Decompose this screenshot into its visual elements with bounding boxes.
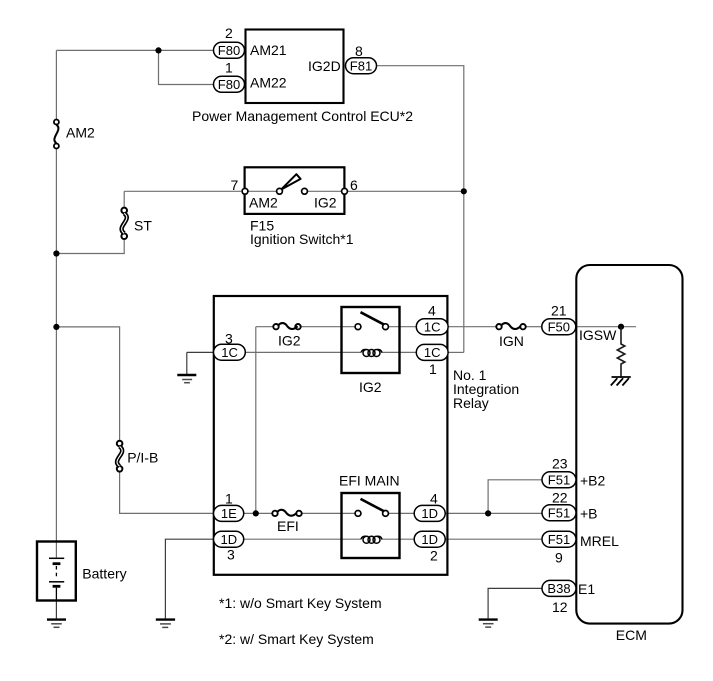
svg-text:+B: +B xyxy=(580,505,598,521)
svg-text:8: 8 xyxy=(355,43,363,59)
svg-text:1: 1 xyxy=(429,361,437,377)
svg-text:ECM: ECM xyxy=(616,627,647,643)
svg-text:23: 23 xyxy=(552,456,568,472)
svg-text:12: 12 xyxy=(552,599,568,615)
svg-text:6: 6 xyxy=(350,177,358,193)
svg-text:ST: ST xyxy=(134,218,152,234)
svg-text:IG2: IG2 xyxy=(359,379,382,395)
svg-text:4: 4 xyxy=(428,303,436,319)
svg-text:AM21: AM21 xyxy=(250,42,287,58)
svg-text:9: 9 xyxy=(555,549,563,565)
svg-text:F81: F81 xyxy=(350,58,372,73)
svg-text:1C: 1C xyxy=(424,320,441,335)
svg-text:IG2: IG2 xyxy=(314,194,337,210)
svg-text:7: 7 xyxy=(231,177,239,193)
svg-text:AM2: AM2 xyxy=(66,125,95,141)
svg-text:IG2: IG2 xyxy=(278,333,301,349)
svg-text:1: 1 xyxy=(225,490,233,506)
svg-text:1D: 1D xyxy=(421,532,438,547)
svg-text:IGSW: IGSW xyxy=(579,327,617,343)
svg-text:EFI: EFI xyxy=(277,518,299,534)
svg-text:*2: w/ Smart Key System: *2: w/ Smart Key System xyxy=(219,631,374,647)
svg-text:2: 2 xyxy=(225,25,233,41)
svg-text:EFI MAIN: EFI MAIN xyxy=(339,472,400,488)
svg-text:B38: B38 xyxy=(547,581,570,596)
svg-text:Ignition Switch*1: Ignition Switch*1 xyxy=(250,231,354,247)
svg-text:AM22: AM22 xyxy=(250,75,287,91)
svg-text:Relay: Relay xyxy=(453,395,489,411)
svg-text:1D: 1D xyxy=(421,506,438,521)
svg-text:1: 1 xyxy=(225,60,233,76)
svg-text:F80: F80 xyxy=(218,77,240,92)
svg-text:F51: F51 xyxy=(548,532,570,547)
svg-text:1E: 1E xyxy=(221,506,237,521)
svg-text:F80: F80 xyxy=(218,43,240,58)
svg-text:21: 21 xyxy=(551,302,567,318)
svg-text:3: 3 xyxy=(225,330,233,346)
svg-text:Power Management Control ECU*2: Power Management Control ECU*2 xyxy=(192,108,413,124)
svg-text:F51: F51 xyxy=(548,506,570,521)
svg-text:2: 2 xyxy=(430,547,438,563)
svg-text:*1: w/o Smart Key System: *1: w/o Smart Key System xyxy=(219,595,382,611)
svg-text:1D: 1D xyxy=(220,532,237,547)
svg-text:P/I-B: P/I-B xyxy=(127,449,158,465)
svg-text:F51: F51 xyxy=(548,473,570,488)
svg-text:IGN: IGN xyxy=(499,333,524,349)
svg-text:F50: F50 xyxy=(548,320,570,335)
svg-text:+B2: +B2 xyxy=(580,473,606,489)
svg-text:E1: E1 xyxy=(578,581,595,597)
svg-text:IG2D: IG2D xyxy=(308,58,341,74)
svg-text:4: 4 xyxy=(430,490,438,506)
svg-text:MREL: MREL xyxy=(580,533,619,549)
svg-text:AM2: AM2 xyxy=(249,194,278,210)
svg-text:22: 22 xyxy=(552,490,568,506)
svg-text:3: 3 xyxy=(227,546,235,562)
svg-text:Battery: Battery xyxy=(82,566,126,582)
svg-text:1C: 1C xyxy=(424,345,441,360)
svg-text:1C: 1C xyxy=(221,345,238,360)
